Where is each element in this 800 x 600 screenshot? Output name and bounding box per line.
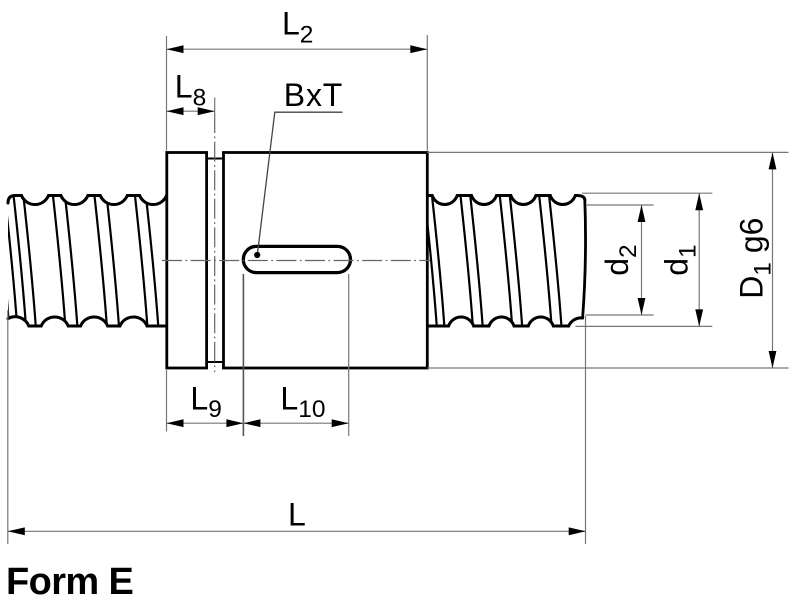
BxT leader line and dot <box>258 112 343 252</box>
dimension line L2 <box>167 48 428 50</box>
nut flange <box>167 153 207 369</box>
extension line body right, upper <box>426 35 428 151</box>
dimension line L <box>8 530 586 532</box>
extension line thread right end <box>585 316 587 544</box>
arrowheads L9 <box>167 419 184 427</box>
extension line flange left, lower <box>166 370 168 432</box>
extension line groove center stub <box>214 98 216 114</box>
extension line shaft left end <box>7 310 9 544</box>
right thread helix flank lines <box>424 194 561 324</box>
right thread end edge <box>583 199 586 318</box>
arrowheads L8 <box>167 107 184 115</box>
lubrication slot BxT <box>243 246 350 272</box>
extension line slot right end <box>348 274 350 436</box>
arrowheads L10 <box>243 419 260 427</box>
groove vertical centerline <box>214 113 216 372</box>
dimension line d2 <box>641 205 643 315</box>
horizontal centerline <box>162 260 430 262</box>
arrowheads L <box>8 527 25 535</box>
arrowheads L2 <box>167 45 184 53</box>
D1 reference line bottom <box>427 367 788 369</box>
dimension line D1 <box>772 152 774 368</box>
left thread helix flank lines <box>0 194 158 324</box>
arrowheads D1 <box>769 152 777 169</box>
circlip groove recess edges <box>207 159 224 363</box>
extension line flange left, upper <box>166 36 168 151</box>
d2 reference line top <box>587 204 654 206</box>
dimension line L8 <box>167 110 215 112</box>
arrowheads d2 <box>638 205 646 222</box>
left screw shaft thread <box>0 194 168 326</box>
extension line slot left end <box>242 274 244 436</box>
nut body <box>224 153 428 369</box>
svg-text:Form E: Form E <box>6 561 133 600</box>
svg-text:BxT: BxT <box>284 77 343 113</box>
right screw shaft thread <box>424 194 585 326</box>
dimension line d1 <box>698 193 700 326</box>
svg-text:L: L <box>288 496 306 532</box>
d1 reference line top <box>582 192 712 194</box>
D1 reference line top <box>427 151 788 153</box>
dimension line L9 / L10 <box>167 422 349 424</box>
d1 reference line bottom <box>576 325 713 327</box>
d2 reference line bottom <box>586 314 654 316</box>
arrowheads d1 <box>695 193 703 210</box>
